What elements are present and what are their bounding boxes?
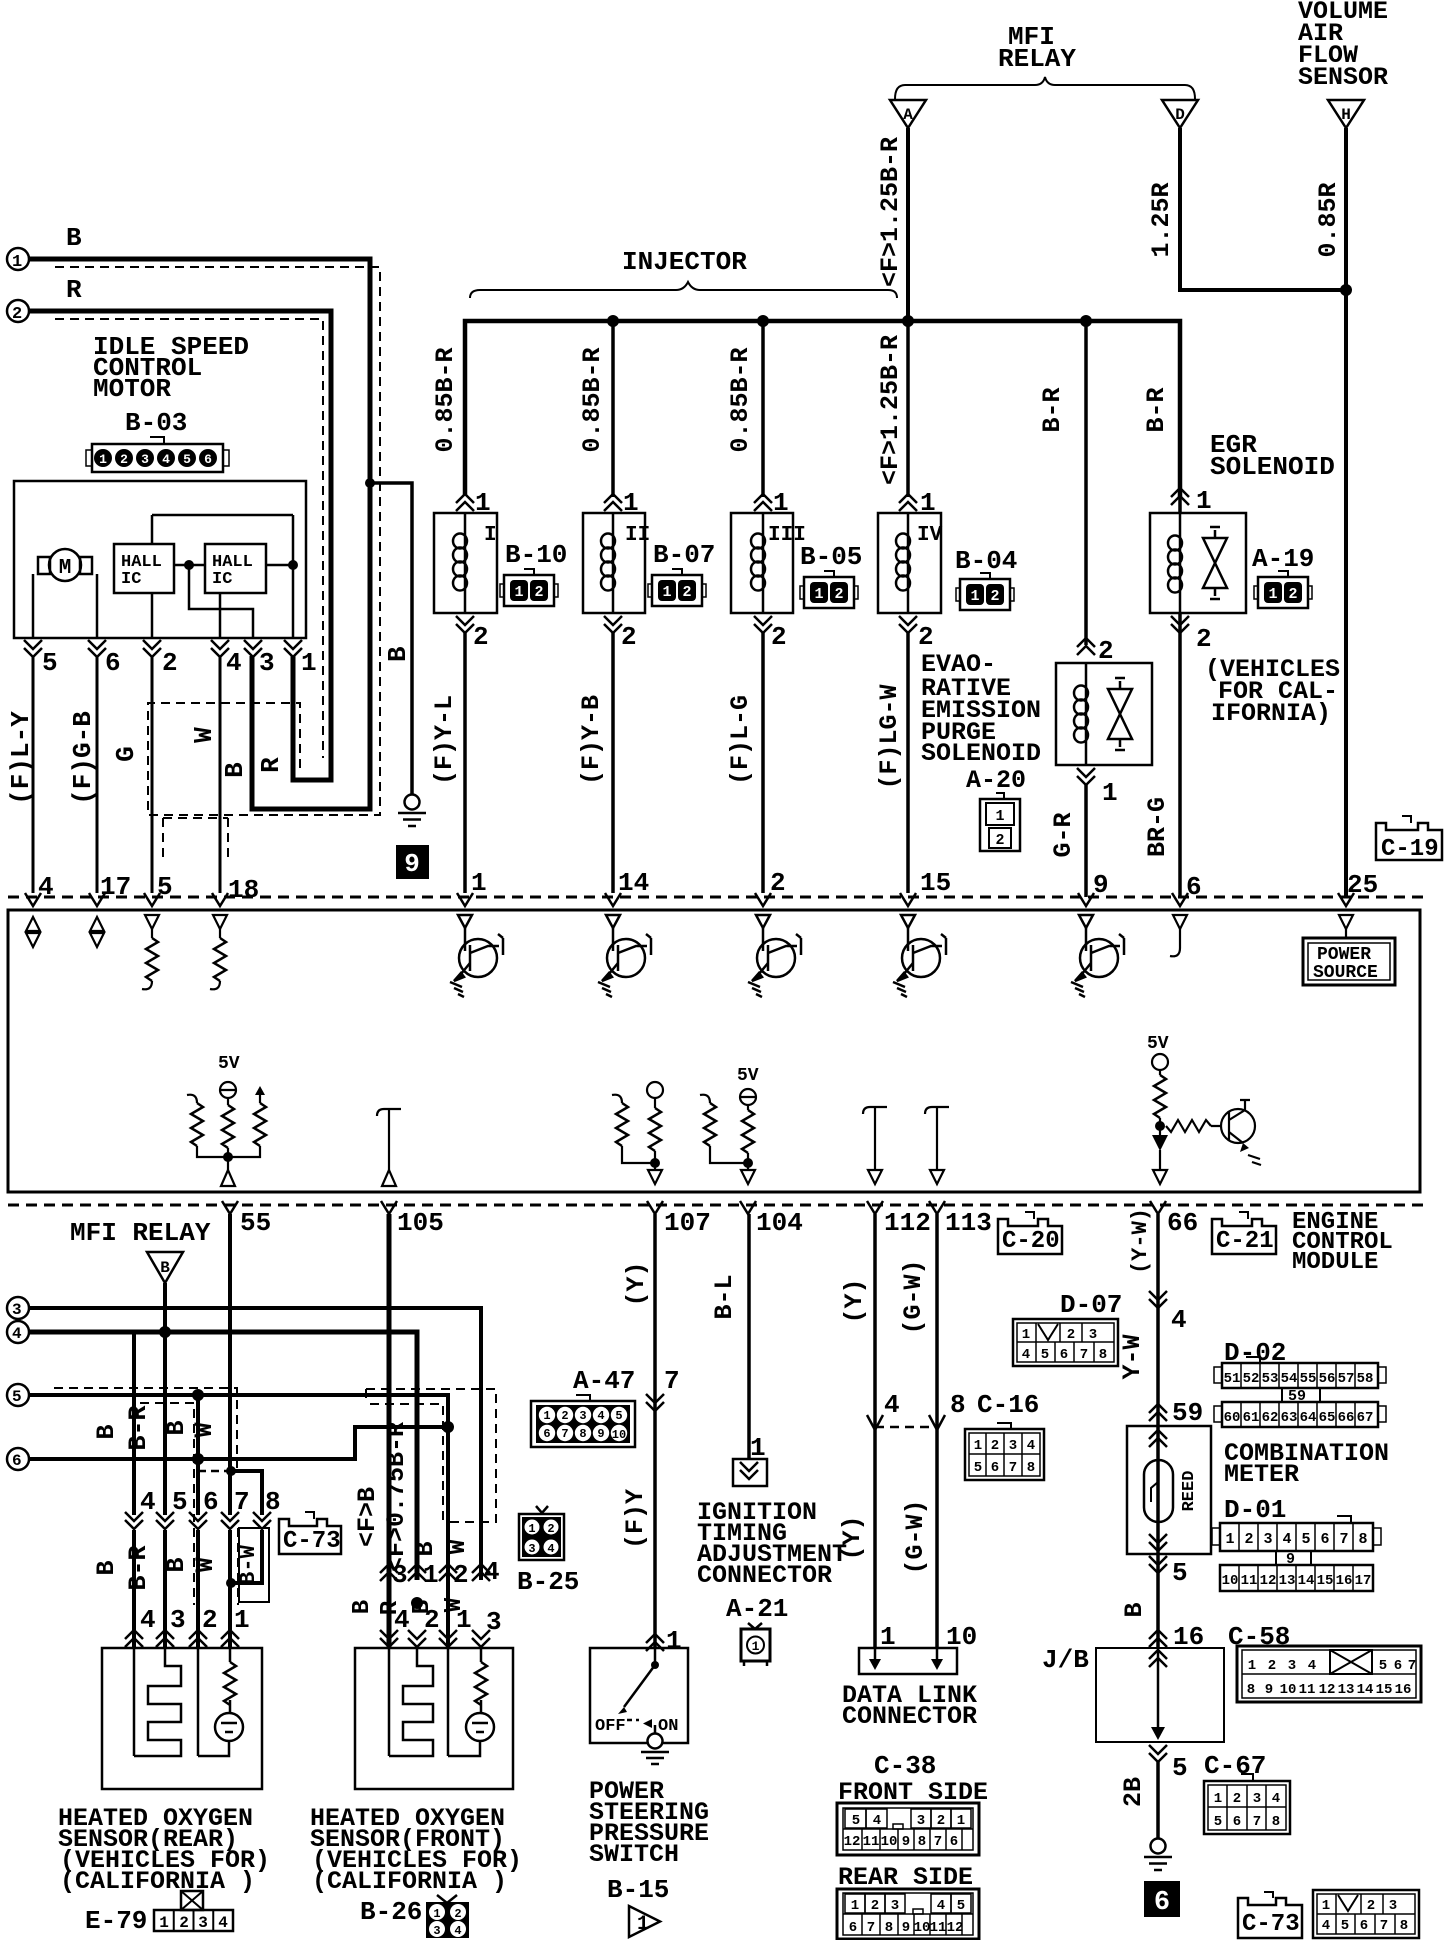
svg-text:12: 12 [1260, 1573, 1277, 1589]
svg-text:4: 4 [162, 452, 170, 467]
svg-text:W: W [191, 1557, 220, 1572]
svg-text:2: 2 [991, 1438, 999, 1454]
svg-text:58: 58 [1357, 1371, 1374, 1387]
svg-text:1: 1 [995, 808, 1004, 825]
svg-text:4: 4 [1272, 1791, 1280, 1807]
svg-text:W: W [190, 1422, 219, 1437]
svg-text:SWITCH: SWITCH [589, 1840, 679, 1869]
svg-text:5: 5 [183, 452, 191, 467]
svg-text:2: 2 [1367, 1898, 1375, 1914]
svg-text:1: 1 [12, 253, 22, 272]
svg-text:(Y): (Y) [840, 1278, 869, 1323]
svg-text:B-26: B-26 [360, 1897, 422, 1927]
svg-text:5: 5 [1341, 1918, 1349, 1934]
svg-text:4: 4 [1027, 1438, 1035, 1454]
svg-text:4: 4 [597, 1409, 604, 1423]
svg-text:2: 2 [871, 1898, 879, 1914]
svg-text:9: 9 [902, 1834, 910, 1850]
svg-text:B-R: B-R [1038, 387, 1067, 432]
svg-text:59: 59 [1172, 1398, 1203, 1428]
svg-text:55: 55 [240, 1208, 271, 1238]
svg-text:B: B [92, 1560, 121, 1575]
svg-text:3: 3 [891, 1898, 899, 1914]
svg-text:113: 113 [945, 1208, 992, 1238]
svg-text:2: 2 [202, 1605, 218, 1635]
svg-text:2: 2 [937, 1813, 945, 1829]
svg-text:2: 2 [453, 1560, 469, 1590]
svg-text:B: B [160, 1259, 170, 1277]
svg-text:1: 1 [1225, 1531, 1234, 1548]
svg-text:16: 16 [1336, 1573, 1353, 1589]
svg-text:2: 2 [995, 832, 1004, 849]
svg-text:2: 2 [547, 1522, 554, 1536]
svg-text:3: 3 [1288, 1658, 1296, 1674]
svg-text:B-05: B-05 [800, 542, 862, 572]
svg-text:MODULE: MODULE [1292, 1249, 1378, 1276]
svg-text:7: 7 [934, 1834, 942, 1850]
svg-text:6: 6 [1233, 1814, 1241, 1830]
svg-text:1: 1 [1248, 1658, 1256, 1674]
svg-text:3: 3 [198, 1914, 208, 1932]
svg-text:5: 5 [1172, 1753, 1188, 1783]
svg-text:5: 5 [1379, 1658, 1387, 1674]
svg-text:B-10: B-10 [505, 540, 567, 570]
svg-text:(F)LG-W: (F)LG-W [875, 684, 904, 789]
svg-text:1: 1 [1196, 486, 1212, 516]
svg-text:4: 4 [1171, 1305, 1187, 1335]
svg-text:11: 11 [1241, 1573, 1258, 1589]
svg-text:1: 1 [773, 488, 789, 518]
svg-text:C-38: C-38 [874, 1751, 936, 1781]
svg-text:M: M [59, 557, 72, 580]
svg-text:7: 7 [1009, 1460, 1017, 1476]
svg-text:1: 1 [851, 1898, 859, 1914]
svg-text:3: 3 [579, 1409, 586, 1423]
svg-text:61: 61 [1243, 1410, 1260, 1426]
svg-text:C-16: C-16 [977, 1390, 1039, 1420]
svg-text:6: 6 [1154, 1888, 1170, 1918]
svg-text:5V: 5V [1147, 1034, 1169, 1054]
svg-text:66: 66 [1167, 1208, 1198, 1238]
svg-text:4: 4 [140, 1605, 156, 1635]
svg-text:2: 2 [1233, 1791, 1241, 1807]
svg-text:14: 14 [618, 868, 649, 898]
svg-text:(F)Y-B: (F)Y-B [577, 695, 606, 785]
svg-text:SOLENOID: SOLENOID [921, 739, 1041, 768]
svg-text:4: 4 [937, 1898, 945, 1914]
svg-text:1: 1 [1102, 778, 1118, 808]
svg-text:6: 6 [950, 1834, 958, 1850]
svg-text:B-07: B-07 [653, 540, 715, 570]
svg-text:5: 5 [1041, 1347, 1049, 1363]
svg-text:12: 12 [1319, 1682, 1336, 1698]
svg-text:1: 1 [159, 1914, 169, 1932]
svg-text:(Y): (Y) [838, 1515, 867, 1560]
svg-text:4: 4 [873, 1813, 881, 1829]
svg-text:IFORNIA): IFORNIA) [1211, 699, 1331, 728]
svg-text:2: 2 [771, 622, 787, 652]
svg-text:12: 12 [947, 1920, 964, 1936]
svg-text:5: 5 [1172, 1558, 1188, 1588]
svg-text:R: R [256, 757, 286, 773]
svg-text:REED: REED [1180, 1471, 1199, 1512]
svg-text:I: I [484, 524, 497, 547]
svg-text:E-79: E-79 [85, 1906, 147, 1936]
svg-text:13: 13 [1279, 1573, 1296, 1589]
svg-text:52: 52 [1243, 1371, 1260, 1387]
svg-text:B: B [162, 1420, 191, 1435]
svg-text:1: 1 [543, 1409, 550, 1423]
svg-text:0.85B-R: 0.85B-R [431, 347, 460, 452]
svg-text:J/B: J/B [1042, 1645, 1089, 1675]
svg-text:5: 5 [42, 648, 58, 678]
svg-text:4: 4 [12, 1325, 22, 1343]
svg-text:1: 1 [1214, 1791, 1222, 1807]
svg-text:4: 4 [1282, 1531, 1291, 1548]
svg-text:C-20: C-20 [1002, 1228, 1060, 1255]
svg-text:0.85B-R: 0.85B-R [578, 347, 607, 452]
svg-text:64: 64 [1300, 1410, 1317, 1426]
svg-text:1: 1 [920, 488, 936, 518]
svg-text:8: 8 [1358, 1531, 1367, 1548]
svg-text:2: 2 [1196, 624, 1212, 654]
svg-text:5V: 5V [737, 1066, 759, 1086]
svg-text:65: 65 [1319, 1410, 1336, 1426]
svg-text:4: 4 [1322, 1918, 1330, 1934]
svg-text:6: 6 [12, 1452, 22, 1470]
svg-text:2: 2 [179, 1914, 189, 1932]
svg-text:3: 3 [1009, 1438, 1017, 1454]
svg-text:57: 57 [1338, 1371, 1355, 1387]
svg-text:1: 1 [623, 488, 639, 518]
svg-text:W: W [443, 1539, 472, 1554]
svg-text:0.85B-R: 0.85B-R [726, 347, 755, 452]
svg-text:8: 8 [265, 1487, 281, 1517]
svg-text:2: 2 [561, 1409, 568, 1423]
svg-text:INJECTOR: INJECTOR [622, 247, 747, 277]
svg-text:(Y-W): (Y-W) [1128, 1208, 1153, 1274]
svg-text:17: 17 [1355, 1573, 1372, 1589]
svg-text:1: 1 [974, 1438, 982, 1454]
svg-text:5V: 5V [218, 1054, 240, 1074]
svg-text:3: 3 [917, 1813, 925, 1829]
svg-text:B-03: B-03 [125, 408, 187, 438]
svg-text:G-R: G-R [1049, 812, 1078, 857]
svg-text:12: 12 [844, 1834, 861, 1850]
svg-text:5: 5 [1301, 1531, 1310, 1548]
svg-text:4: 4 [226, 648, 242, 678]
svg-text:5: 5 [615, 1409, 622, 1423]
svg-text:SOURCE: SOURCE [1313, 963, 1378, 983]
svg-text:<F>1.25B-R: <F>1.25B-R [876, 335, 905, 485]
svg-text:62: 62 [1262, 1410, 1279, 1426]
svg-text:14: 14 [1357, 1682, 1374, 1698]
svg-text:H: H [1341, 106, 1351, 124]
svg-text:104: 104 [756, 1208, 803, 1238]
svg-text:7: 7 [664, 1366, 680, 1396]
svg-text:8: 8 [918, 1834, 926, 1850]
svg-text:C-21: C-21 [1216, 1228, 1274, 1255]
svg-text:3: 3 [259, 648, 275, 678]
svg-text:2: 2 [770, 868, 786, 898]
svg-text:1: 1 [456, 1605, 472, 1635]
svg-text:(F)L-Y: (F)L-Y [6, 711, 36, 805]
svg-text:6: 6 [543, 1427, 550, 1441]
svg-text:9: 9 [597, 1427, 604, 1441]
svg-text:16: 16 [1395, 1682, 1412, 1698]
svg-text:1: 1 [475, 488, 491, 518]
svg-text:C-73: C-73 [1242, 1911, 1300, 1938]
svg-text:(F)L-G: (F)L-G [726, 695, 755, 785]
svg-text:B: B [1120, 1602, 1149, 1617]
svg-text:51: 51 [1224, 1371, 1241, 1387]
svg-text:8: 8 [1027, 1460, 1035, 1476]
svg-text:B-15: B-15 [607, 1875, 669, 1905]
svg-text:C-73: C-73 [283, 1528, 341, 1555]
svg-text:B-R: B-R [124, 1405, 153, 1450]
svg-text:2: 2 [162, 648, 178, 678]
svg-text:10: 10 [881, 1834, 898, 1850]
svg-text:8: 8 [1272, 1814, 1280, 1830]
svg-text:B: B [66, 223, 82, 253]
svg-text:10: 10 [914, 1920, 931, 1936]
svg-text:1.25R: 1.25R [1147, 182, 1176, 257]
svg-text:6: 6 [849, 1920, 857, 1936]
svg-text:7: 7 [1408, 1658, 1416, 1674]
svg-text:112: 112 [884, 1208, 931, 1238]
svg-text:SENSOR: SENSOR [1298, 63, 1388, 92]
svg-text:3: 3 [141, 452, 149, 467]
svg-text:A: A [903, 106, 913, 124]
svg-text:7: 7 [234, 1487, 250, 1517]
svg-text:R: R [66, 275, 82, 305]
svg-text:D-07: D-07 [1060, 1290, 1122, 1320]
svg-text:10: 10 [1280, 1682, 1297, 1698]
svg-text:8: 8 [579, 1427, 586, 1441]
svg-text:1: 1 [433, 1907, 440, 1921]
svg-text:1: 1 [957, 1813, 965, 1829]
svg-text:B-R: B-R [124, 1545, 153, 1590]
svg-text:10: 10 [612, 1428, 626, 1442]
svg-text:6: 6 [991, 1460, 999, 1476]
svg-text:9: 9 [404, 849, 420, 879]
svg-text:MFI RELAY: MFI RELAY [70, 1218, 211, 1248]
svg-text:15: 15 [1317, 1573, 1334, 1589]
svg-text:2: 2 [120, 452, 128, 467]
svg-text:7: 7 [1380, 1918, 1388, 1934]
svg-text:6: 6 [105, 648, 121, 678]
svg-text:2: 2 [1067, 1327, 1075, 1343]
svg-text:3: 3 [1253, 1791, 1261, 1807]
svg-text:15: 15 [1376, 1682, 1393, 1698]
svg-text:<F>1.25B-R: <F>1.25B-R [876, 137, 905, 287]
svg-text:CONNECTOR: CONNECTOR [842, 1702, 977, 1731]
svg-text:1: 1 [528, 1522, 535, 1536]
svg-text:7: 7 [1253, 1814, 1261, 1830]
svg-text:5: 5 [1214, 1814, 1222, 1830]
svg-text:A-19: A-19 [1252, 544, 1314, 574]
svg-text:6: 6 [1320, 1531, 1329, 1548]
svg-text:7: 7 [561, 1427, 568, 1441]
svg-text:4: 4 [1308, 1658, 1316, 1674]
svg-text:18: 18 [228, 875, 259, 905]
svg-text:B: B [411, 1541, 440, 1556]
svg-text:A-21: A-21 [726, 1594, 788, 1624]
svg-text:5: 5 [957, 1898, 965, 1914]
svg-text:11: 11 [930, 1920, 947, 1936]
svg-text:2: 2 [1268, 1658, 1276, 1674]
svg-text:15: 15 [920, 868, 951, 898]
svg-text:B-R: B-R [1142, 387, 1171, 432]
svg-text:67: 67 [1357, 1410, 1374, 1426]
svg-text:3: 3 [170, 1605, 186, 1635]
svg-text:(F)Y-L: (F)Y-L [430, 695, 459, 785]
svg-text:6: 6 [1060, 1347, 1068, 1363]
svg-text:66: 66 [1338, 1410, 1355, 1426]
svg-text:8: 8 [1247, 1682, 1255, 1698]
svg-text:3: 3 [392, 1560, 408, 1590]
svg-text:B: B [220, 762, 250, 778]
svg-text:ON: ON [658, 1717, 678, 1736]
svg-text:6: 6 [204, 452, 212, 467]
svg-text:9: 9 [902, 1920, 910, 1936]
svg-text:9: 9 [1265, 1682, 1273, 1698]
svg-text:BR-G: BR-G [1143, 797, 1172, 857]
svg-text:METER: METER [1224, 1460, 1299, 1489]
svg-text:(CALIFORNIA ): (CALIFORNIA ) [60, 1867, 255, 1896]
svg-text:4: 4 [484, 1557, 500, 1587]
svg-text:55: 55 [1300, 1371, 1317, 1387]
svg-text:<F>B: <F>B [353, 1487, 382, 1547]
svg-text:Y-W: Y-W [1118, 1334, 1147, 1379]
svg-text:(Y): (Y) [622, 1261, 651, 1306]
svg-text:8: 8 [1400, 1918, 1408, 1934]
svg-text:RELAY: RELAY [998, 44, 1076, 74]
svg-text:<F>0.75B-R: <F>0.75B-R [382, 1422, 411, 1572]
svg-text:B-L: B-L [710, 1274, 739, 1319]
svg-text:B-W: B-W [236, 1544, 261, 1584]
svg-text:1: 1 [99, 452, 107, 467]
svg-text:63: 63 [1281, 1410, 1298, 1426]
svg-text:B-04: B-04 [955, 546, 1017, 576]
svg-text:2: 2 [473, 622, 489, 652]
svg-text:B: B [162, 1557, 191, 1572]
svg-text:1: 1 [666, 1626, 682, 1656]
svg-text:13: 13 [1338, 1682, 1355, 1698]
svg-text:5: 5 [12, 1388, 22, 1406]
svg-text:C-19: C-19 [1381, 836, 1439, 863]
svg-text:(F)G-B: (F)G-B [68, 711, 98, 805]
svg-text:2B: 2B [1119, 1777, 1148, 1807]
svg-text:14: 14 [1298, 1573, 1315, 1589]
svg-text:POWER: POWER [1317, 945, 1371, 965]
svg-text:G: G [111, 746, 141, 762]
svg-text:2: 2 [1098, 636, 1114, 666]
svg-text:8: 8 [885, 1920, 893, 1936]
svg-text:(G-W): (G-W) [899, 1259, 928, 1334]
svg-text:(CALIFORNIA ): (CALIFORNIA ) [312, 1867, 507, 1896]
svg-text:53: 53 [1262, 1371, 1279, 1387]
svg-text:IC: IC [212, 570, 232, 589]
svg-text:11: 11 [1299, 1682, 1316, 1698]
svg-text:D-01: D-01 [1224, 1495, 1286, 1525]
svg-text:7: 7 [1339, 1531, 1348, 1548]
svg-text:4: 4 [547, 1542, 554, 1556]
svg-text:56: 56 [1319, 1371, 1336, 1387]
svg-text:3: 3 [1263, 1531, 1272, 1548]
svg-text:2: 2 [621, 622, 637, 652]
svg-text:1: 1 [637, 1913, 649, 1936]
svg-text:MOTOR: MOTOR [93, 374, 171, 404]
svg-text:10: 10 [1222, 1573, 1239, 1589]
svg-text:60: 60 [1224, 1410, 1241, 1426]
svg-text:6: 6 [1394, 1658, 1402, 1674]
svg-text:7: 7 [1080, 1347, 1088, 1363]
svg-text:A-47: A-47 [573, 1366, 635, 1396]
svg-text:105: 105 [397, 1208, 444, 1238]
svg-text:2: 2 [454, 1907, 461, 1921]
svg-text:5: 5 [974, 1460, 982, 1476]
svg-text:B: B [92, 1424, 121, 1439]
svg-text:2: 2 [1244, 1531, 1253, 1548]
svg-text:1: 1 [234, 1605, 250, 1635]
svg-text:SOLENOID: SOLENOID [1210, 452, 1335, 482]
svg-text:B-25: B-25 [517, 1567, 579, 1597]
svg-text:IV: IV [917, 524, 943, 547]
svg-text:3: 3 [1389, 1898, 1397, 1914]
svg-text:3: 3 [12, 1301, 22, 1319]
svg-text:4: 4 [218, 1914, 228, 1932]
svg-text:(F)Y: (F)Y [621, 1489, 650, 1549]
svg-text:1: 1 [1322, 1898, 1330, 1914]
svg-text:3: 3 [1089, 1327, 1097, 1343]
svg-text:107: 107 [664, 1208, 711, 1238]
svg-text:D: D [1175, 106, 1185, 124]
svg-text:3: 3 [528, 1542, 535, 1556]
svg-text:2: 2 [12, 305, 22, 324]
svg-text:11: 11 [863, 1834, 880, 1850]
svg-text:OFF: OFF [595, 1717, 626, 1736]
svg-text:A-20: A-20 [966, 766, 1026, 795]
svg-text:B: B [349, 1600, 376, 1614]
svg-text:1: 1 [301, 648, 317, 678]
svg-text:B: B [383, 646, 413, 662]
svg-text:IC: IC [121, 570, 141, 589]
svg-text:8: 8 [950, 1390, 966, 1420]
svg-text:W: W [189, 727, 219, 743]
svg-text:C-67: C-67 [1204, 1751, 1266, 1781]
svg-text:(G-W): (G-W) [901, 1499, 930, 1574]
svg-text:1: 1 [423, 1560, 439, 1590]
svg-text:5: 5 [852, 1813, 860, 1829]
svg-text:4: 4 [884, 1390, 900, 1420]
svg-text:4: 4 [454, 1924, 461, 1938]
svg-text:0.85R: 0.85R [1314, 182, 1343, 257]
svg-text:7: 7 [867, 1920, 875, 1936]
svg-text:2: 2 [918, 622, 934, 652]
svg-text:3: 3 [433, 1924, 440, 1938]
svg-text:8: 8 [1099, 1347, 1107, 1363]
svg-text:54: 54 [1281, 1371, 1298, 1387]
svg-text:6: 6 [1360, 1918, 1368, 1934]
svg-text:1: 1 [1022, 1327, 1030, 1343]
svg-text:II: II [625, 524, 650, 547]
svg-text:CONNECTOR: CONNECTOR [697, 1561, 832, 1590]
svg-text:1: 1 [752, 1639, 760, 1654]
svg-text:4: 4 [1022, 1347, 1030, 1363]
